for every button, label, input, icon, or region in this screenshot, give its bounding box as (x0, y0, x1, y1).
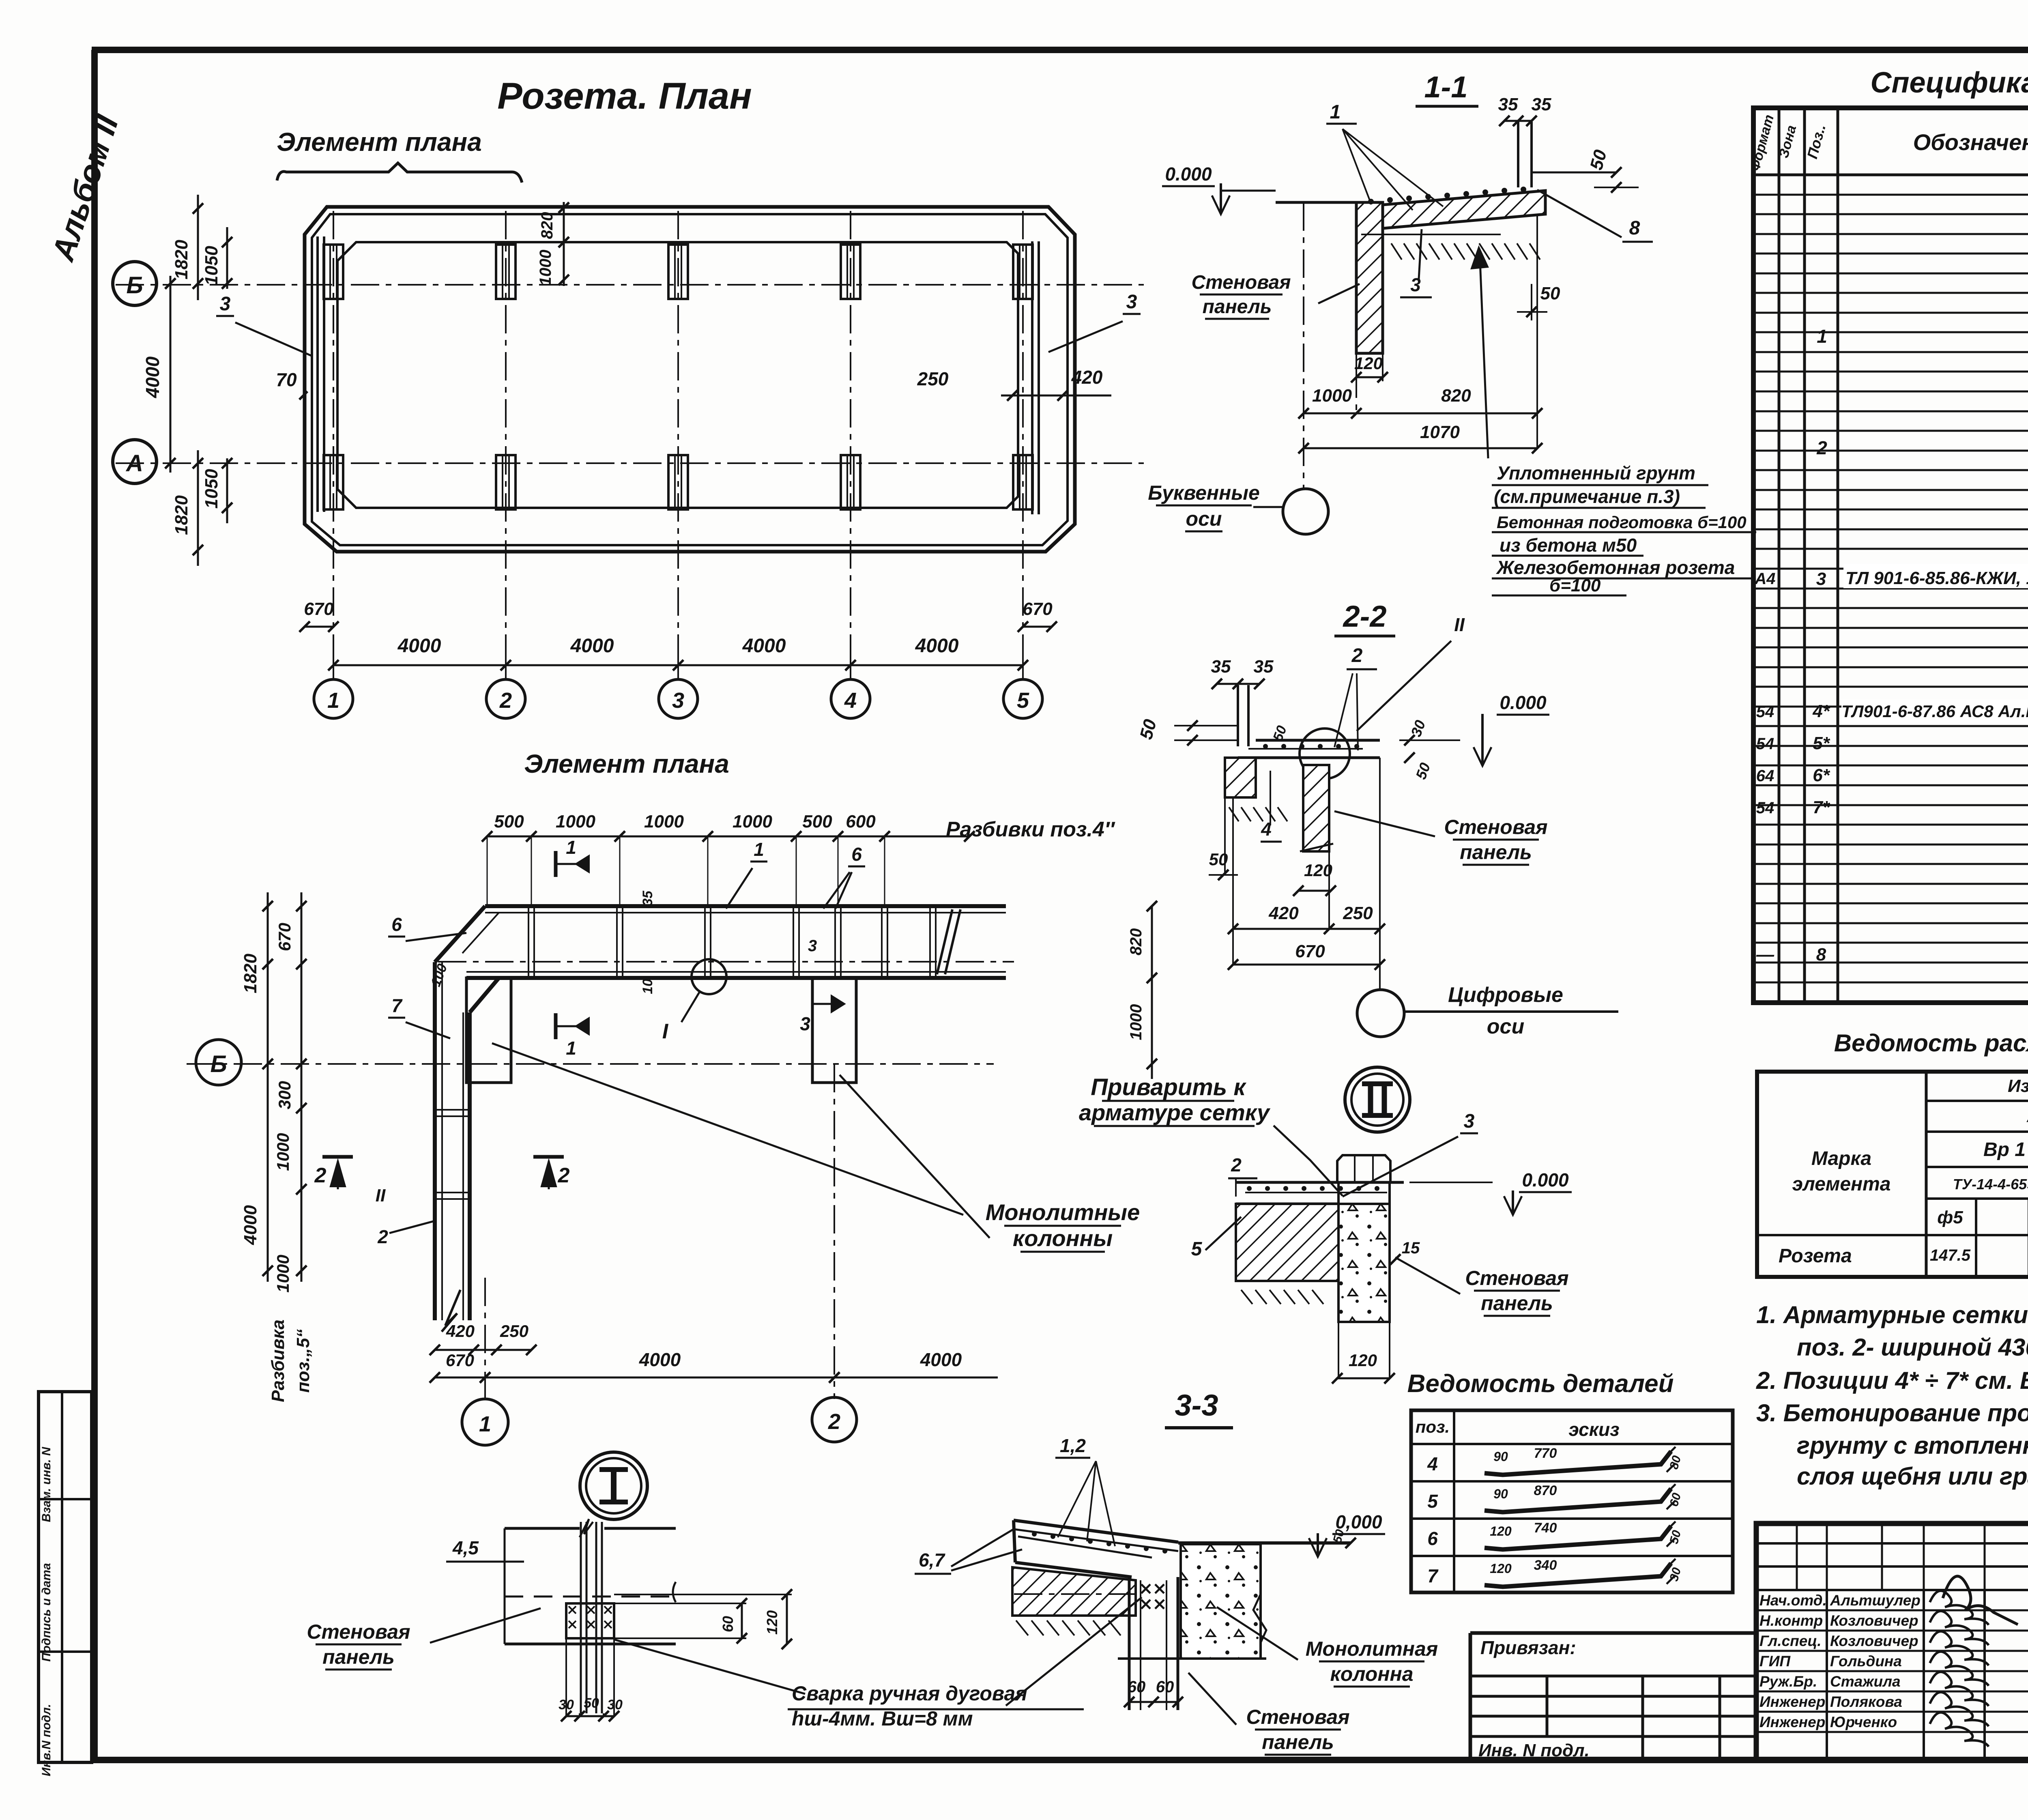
svg-text:панель: панель (322, 1646, 395, 1668)
svg-text:2: 2 (828, 1410, 840, 1434)
svg-text:Уплотненный грунт: Уплотненный грунт (1497, 462, 1695, 483)
svg-text:Ведомость деталей: Ведомость деталей (1407, 1370, 1674, 1398)
svg-text:7: 7 (391, 995, 403, 1016)
svg-text:120: 120 (764, 1610, 780, 1635)
svg-text:0,000: 0,000 (1335, 1511, 1382, 1532)
svg-text:Разбивка: Разбивка (268, 1319, 288, 1402)
svg-text:поз.: поз. (1416, 1417, 1450, 1436)
svg-text:15: 15 (1402, 1239, 1420, 1257)
svg-text:5: 5 (1017, 688, 1029, 713)
svg-text:60: 60 (1128, 1678, 1146, 1696)
svg-text:II: II (376, 1186, 386, 1205)
svg-text:А: А (125, 450, 143, 477)
svg-text:35: 35 (1211, 657, 1231, 677)
svg-text:Марка: Марка (1811, 1148, 1871, 1169)
svg-text:Инженер: Инженер (1759, 1714, 1825, 1730)
svg-text:Спецификация. Розеты.: Спецификация. Розеты. (1871, 67, 2028, 99)
svg-text:1820: 1820 (172, 240, 191, 279)
svg-text:2: 2 (1351, 645, 1363, 666)
svg-text:панель: панель (1262, 1731, 1334, 1753)
svg-text:60: 60 (720, 1616, 736, 1632)
svg-text:340: 340 (1534, 1558, 1557, 1573)
svg-text:Приварить к: Приварить к (1091, 1074, 1246, 1100)
svg-text:оси: оси (1487, 1015, 1524, 1038)
svg-text:2. Позиции 4* ÷ 7* см. Вед: 2. Позиции 4* ÷ 7* см. Ведомость деталей (1756, 1367, 2028, 1394)
svg-text:35: 35 (640, 890, 655, 906)
svg-text:Цифровые: Цифровые (1448, 983, 1563, 1007)
svg-text:панель: панель (1481, 1292, 1553, 1315)
svg-text:670: 670 (446, 1351, 474, 1370)
svg-text:hш-4мм. Вш=8 мм: hш-4мм. Вш=8 мм (792, 1707, 973, 1730)
svg-text:250: 250 (500, 1321, 528, 1341)
svg-text:Нач.отд.: Нач.отд. (1759, 1592, 1827, 1609)
svg-text:колонны: колонны (1013, 1225, 1113, 1251)
svg-text:8: 8 (1816, 945, 1826, 965)
svg-text:Бетонная подготовка б=100: Бетонная подготовка б=100 (1497, 513, 1747, 532)
svg-text:820: 820 (538, 212, 556, 239)
svg-text:4,5: 4,5 (452, 1537, 479, 1558)
svg-text:1: 1 (754, 839, 764, 860)
svg-text:30: 30 (607, 1697, 623, 1713)
svg-text:1000: 1000 (556, 812, 595, 832)
svg-text:Элемент плана: Элемент плана (277, 127, 482, 157)
svg-text:А4: А4 (1754, 570, 1775, 588)
svg-text:3: 3 (808, 937, 817, 955)
svg-text:670: 670 (1023, 599, 1053, 619)
svg-text:670: 670 (275, 923, 294, 951)
svg-text:Ведомость расхода стали на эле: Ведомость расхода стали на элемент, кг (1834, 1029, 2028, 1057)
svg-text:300: 300 (275, 1081, 294, 1109)
svg-text:1,2: 1,2 (1060, 1435, 1086, 1456)
svg-text:1000: 1000 (273, 1255, 292, 1292)
svg-text:420: 420 (1268, 903, 1299, 923)
svg-text:II: II (1454, 614, 1465, 635)
svg-text:4000: 4000 (915, 635, 959, 657)
svg-text:820: 820 (1127, 928, 1145, 956)
svg-text:ГИП: ГИП (1759, 1653, 1791, 1670)
svg-text:Стеновая: Стеновая (307, 1620, 410, 1643)
svg-text:0.000: 0.000 (1500, 692, 1547, 713)
svg-text:оси: оси (1186, 507, 1222, 530)
svg-text:Стеновая: Стеновая (1246, 1706, 1349, 1728)
svg-text:4*: 4* (1812, 701, 1830, 721)
svg-text:Элемент плана: Элемент плана (524, 749, 729, 778)
svg-text:Козловичер: Козловичер (1830, 1612, 1918, 1629)
svg-text:5: 5 (1427, 1491, 1438, 1512)
svg-text:Вр 1: Вр 1 (1983, 1139, 2026, 1160)
svg-text:Инв. N подл.: Инв. N подл. (1478, 1740, 1590, 1760)
svg-text:Руж.Бр.: Руж.Бр. (1759, 1673, 1817, 1690)
svg-text:3: 3 (1464, 1111, 1475, 1132)
svg-text:панель: панель (1203, 296, 1272, 318)
svg-text:Стажила: Стажила (1830, 1673, 1901, 1690)
svg-text:3: 3 (800, 1013, 810, 1034)
svg-text:Розета. План: Розета. План (497, 75, 752, 117)
svg-text:1820: 1820 (241, 954, 260, 993)
svg-text:420: 420 (1071, 367, 1103, 388)
svg-text:поз. 2- шириной 430мм.: поз. 2- шириной 430мм. (1797, 1334, 2028, 1361)
svg-text:эскиз: эскиз (1568, 1419, 1619, 1440)
svg-text:1: 1 (1817, 326, 1827, 347)
svg-text:10: 10 (640, 979, 655, 994)
svg-text:Привязан:: Привязан: (1480, 1637, 1576, 1658)
svg-text:1000: 1000 (1312, 386, 1352, 406)
svg-text:колонна: колонна (1330, 1663, 1413, 1685)
svg-text:740: 740 (1534, 1520, 1557, 1536)
svg-text:Сварка ручная дуговая: Сварка ручная дуговая (792, 1682, 1027, 1705)
svg-text:1070: 1070 (1420, 422, 1460, 442)
svg-text:арматуре сетку: арматуре сетку (1079, 1100, 1271, 1125)
svg-text:2: 2 (377, 1226, 388, 1247)
svg-text:4000: 4000 (742, 635, 786, 657)
svg-text:770: 770 (1534, 1446, 1557, 1461)
svg-text:Обозначение: Обозначение (1913, 129, 2028, 155)
svg-text:4000: 4000 (241, 1205, 260, 1245)
svg-text:слоя щебня или гравия кр: слоя щебня или гравия крупностью 40÷60мм (1797, 1463, 2028, 1490)
svg-text:Монолитная: Монолитная (1306, 1637, 1438, 1660)
svg-text:1050: 1050 (202, 469, 221, 509)
svg-text:2-2: 2-2 (1343, 600, 1387, 633)
svg-text:60: 60 (1156, 1678, 1174, 1696)
svg-text:420: 420 (446, 1321, 475, 1341)
svg-text:Монолитные: Монолитные (986, 1199, 1140, 1225)
svg-text:ТЛ901-6-87.86 АС8 Ал.II: ТЛ901-6-87.86 АС8 Ал.II (1841, 702, 2028, 721)
svg-text:6*: 6* (1813, 765, 1830, 785)
svg-text:1050: 1050 (202, 246, 221, 286)
svg-text:1. Арматурные сетки поз. 1″ р: 1. Арматурные сетки поз. 1″ резать ширин… (1756, 1301, 2028, 1328)
svg-text:54: 54 (1756, 799, 1774, 817)
svg-text:Стеновая: Стеновая (1465, 1267, 1568, 1289)
svg-text:1000: 1000 (1127, 1004, 1145, 1040)
svg-text:90: 90 (1493, 1449, 1508, 1464)
svg-text:670: 670 (1295, 941, 1325, 961)
svg-text:120: 120 (1490, 1561, 1512, 1576)
svg-text:120: 120 (1304, 861, 1332, 880)
svg-text:4000: 4000 (570, 635, 614, 657)
svg-text:Гл.спец.: Гл.спец. (1759, 1633, 1822, 1649)
svg-text:Козловичер: Козловичер (1830, 1633, 1918, 1649)
svg-text:250: 250 (1343, 903, 1373, 923)
svg-text:Гольдина: Гольдина (1830, 1653, 1902, 1670)
svg-text:Н.контр: Н.контр (1759, 1612, 1823, 1629)
svg-text:Юрченко: Юрченко (1830, 1714, 1897, 1730)
svg-text:ф5: ф5 (1937, 1208, 1963, 1227)
svg-text:Инженер: Инженер (1759, 1693, 1825, 1710)
svg-text:Полякова: Полякова (1830, 1693, 1902, 1710)
svg-text:3-3: 3-3 (1175, 1388, 1218, 1422)
svg-text:90: 90 (1493, 1487, 1508, 1501)
svg-text:грунту с втопленным в нег: грунту с втопленным в него на глубину не… (1797, 1432, 2028, 1459)
svg-text:870: 870 (1534, 1483, 1557, 1498)
svg-text:Буквенные: Буквенные (1148, 481, 1260, 504)
svg-text:6,7: 6,7 (919, 1549, 945, 1571)
svg-text:50: 50 (1540, 284, 1560, 303)
svg-text:7*: 7* (1813, 797, 1830, 817)
svg-text:Розета: Розета (1779, 1245, 1852, 1267)
svg-text:120: 120 (1349, 1351, 1377, 1370)
svg-text:54: 54 (1756, 703, 1774, 721)
svg-text:5*: 5* (1813, 733, 1830, 753)
svg-text:120: 120 (1354, 354, 1383, 373)
svg-text:I: I (662, 1020, 669, 1043)
svg-text:670: 670 (304, 599, 334, 619)
svg-text:Железобетонная розета: Железобетонная розета (1496, 557, 1735, 578)
svg-text:панель: панель (1460, 841, 1532, 864)
svg-text:Разбивки поз.4″: Разбивки поз.4″ (946, 818, 1115, 841)
svg-text:35: 35 (1532, 95, 1551, 114)
svg-text:Изделия арматурные: Изделия арматурные (2008, 1076, 2028, 1096)
svg-text:Стеновая: Стеновая (1444, 816, 1547, 838)
svg-text:70: 70 (276, 369, 297, 390)
svg-text:8: 8 (1629, 217, 1640, 239)
svg-text:600: 600 (846, 812, 876, 832)
svg-text:35: 35 (1254, 657, 1274, 677)
svg-text:из бетона м50: из бетона м50 (1500, 535, 1637, 556)
svg-text:0.000: 0.000 (1522, 1169, 1569, 1190)
svg-text:64: 64 (1756, 767, 1774, 785)
svg-text:Альтшулер: Альтшулер (1830, 1592, 1921, 1609)
svg-text:120: 120 (1490, 1524, 1512, 1539)
svg-text:Взам. инв. N: Взам. инв. N (40, 1446, 53, 1522)
svg-text:1: 1 (566, 1038, 576, 1059)
svg-text:1000: 1000 (644, 812, 684, 832)
svg-text:3: 3 (1126, 291, 1137, 313)
svg-text:—: — (1756, 945, 1774, 965)
svg-text:ТЛ 901-6-85.86-КЖИ, 1,9,01: ТЛ 901-6-85.86-КЖИ, 1,9,01 (1845, 568, 2028, 588)
svg-text:Б: Б (210, 1051, 227, 1077)
svg-text:1: 1 (566, 837, 576, 858)
svg-text:1-1: 1-1 (1424, 70, 1468, 104)
svg-text:3: 3 (672, 688, 684, 713)
svg-text:6: 6 (851, 844, 862, 865)
svg-text:250: 250 (917, 368, 949, 389)
svg-text:Б: Б (126, 272, 143, 299)
svg-text:4000: 4000 (397, 635, 441, 657)
svg-text:1: 1 (327, 688, 339, 713)
svg-text:4000: 4000 (639, 1349, 681, 1370)
svg-text:3: 3 (1816, 569, 1826, 589)
svg-text:Подпись и дата: Подпись и дата (40, 1563, 53, 1661)
svg-text:1000: 1000 (273, 1133, 292, 1171)
svg-text:элемента: элемента (1792, 1173, 1891, 1195)
svg-text:2: 2 (1231, 1154, 1242, 1175)
svg-text:147.5: 147.5 (1930, 1246, 1971, 1264)
svg-text:2: 2 (558, 1164, 570, 1187)
svg-text:2: 2 (1816, 437, 1827, 458)
svg-text:820: 820 (1441, 386, 1471, 406)
svg-text:1: 1 (1330, 101, 1341, 123)
svg-text:2: 2 (314, 1164, 327, 1187)
svg-text:4: 4 (844, 688, 857, 713)
svg-text:4: 4 (1427, 1453, 1438, 1474)
svg-text:500: 500 (494, 812, 524, 832)
svg-text:(см.примечание п.3): (см.примечание п.3) (1494, 486, 1680, 507)
svg-text:500: 500 (802, 812, 832, 832)
svg-text:50: 50 (584, 1695, 599, 1711)
svg-text:1000: 1000 (537, 250, 554, 286)
svg-text:3: 3 (220, 293, 231, 315)
svg-text:Арматура класса: Арматура класса (2026, 1106, 2028, 1126)
svg-text:1: 1 (479, 1412, 491, 1436)
svg-text:4000: 4000 (142, 356, 163, 398)
svg-text:Стеновая: Стеновая (1191, 272, 1291, 293)
svg-text:3. Бетонирование производить: 3. Бетонирование производить по уплотнен… (1756, 1399, 2028, 1427)
svg-text:7: 7 (1427, 1565, 1439, 1586)
svg-text:1000: 1000 (733, 812, 772, 832)
svg-text:6: 6 (391, 914, 402, 935)
svg-text:ТУ-14-4-659-75: ТУ-14-4-659-75 (1953, 1176, 2028, 1193)
svg-text:35: 35 (1498, 95, 1518, 114)
svg-text:1820: 1820 (172, 495, 191, 535)
svg-text:поз.„5“: поз.„5“ (293, 1329, 313, 1393)
svg-text:Инв.N подл.: Инв.N подл. (40, 1704, 53, 1776)
svg-text:6: 6 (1427, 1528, 1438, 1549)
svg-text:2: 2 (499, 688, 512, 713)
svg-text:4000: 4000 (920, 1349, 962, 1370)
svg-text:54: 54 (1756, 735, 1774, 753)
svg-text:5: 5 (1191, 1238, 1203, 1260)
svg-text:0.000: 0.000 (1165, 163, 1212, 185)
